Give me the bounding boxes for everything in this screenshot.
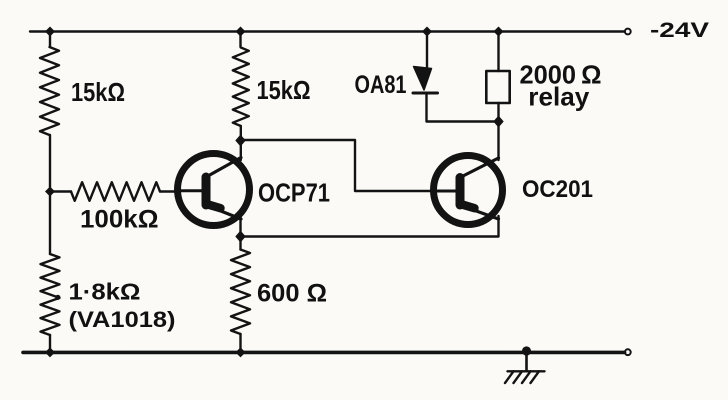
wire 100k right lead to OCP71 base	[160, 190, 180, 192]
diode OA81 cathode bar	[413, 92, 438, 95]
wire 15k second branch to collector node	[240, 126, 242, 160]
OCP71 envelope circle	[178, 154, 250, 226]
OCP71 emitter line	[207, 206, 241, 220]
OC201 emitter line	[461, 206, 499, 220]
relay branch wire top	[497, 32, 499, 72]
wire left branch bottom	[49, 335, 51, 352]
node junction dot top rail / 15k second branch	[236, 27, 246, 37]
OC201 base bar	[456, 178, 465, 206]
wire OA81 bottom	[427, 93, 499, 122]
svg-text:relay: relay	[528, 82, 590, 112]
wire relay bottom	[497, 103, 499, 160]
wire left branch top	[49, 32, 51, 48]
wire bottom rail	[23, 351, 625, 355]
OC201 collector line	[461, 158, 499, 177]
wire left branch middle	[49, 135, 51, 254]
wire OA81 branch top	[426, 32, 428, 68]
blob artifact on 1.8k resistor	[55, 295, 60, 300]
node junction dot bottom rail / left branch	[45, 347, 55, 357]
OC201 emitter arrow	[462, 205, 475, 209]
svg-text:-24V: -24V	[650, 19, 709, 42]
wire top supply rail	[30, 30, 625, 32]
wire 15k second branch top	[239, 32, 241, 48]
svg-text:OC201: OC201	[522, 176, 593, 203]
svg-text:100kΩ: 100kΩ	[80, 206, 159, 234]
svg-text:15kΩ: 15kΩ	[257, 75, 311, 105]
svg-text:600 Ω: 600 Ω	[257, 280, 327, 308]
wire OCP71 emitter down	[239, 216, 241, 237]
OCP71 base lead	[180, 189, 203, 192]
node junction dot collector of OCP71	[235, 135, 245, 147]
resistor 100k	[71, 182, 160, 201]
node junction dot bottom rail / ground	[522, 346, 531, 355]
terminal -24V (open circle)	[625, 29, 631, 35]
transistor OC201	[434, 156, 503, 225]
OCP71 collector line	[207, 158, 241, 177]
wire 100k left lead	[50, 190, 71, 192]
transistor OCP71	[178, 154, 250, 226]
terminal bottom right (open circle)	[625, 349, 631, 355]
ground stub wire	[525, 352, 528, 371]
OC201 base lead	[434, 190, 457, 193]
ground symbol	[505, 371, 545, 383]
node junction dot bottom rail / 600 ohm	[236, 347, 246, 357]
node junction dot top rail / left branch	[45, 27, 55, 37]
svg-text:15kΩ: 15kΩ	[71, 77, 125, 107]
OCP71 base bar	[202, 177, 211, 205]
wire OCP71 emitter to OC201 emitter	[241, 216, 499, 237]
diode OA81 triangle	[414, 67, 432, 91]
OCP71 emitter arrow	[208, 205, 221, 209]
resistor 600 ohm	[231, 250, 250, 335]
resistor 15k (second)	[233, 48, 249, 127]
OC201 envelope circle	[434, 156, 503, 225]
wire 600 ohm to bottom rail	[239, 334, 241, 352]
node junction dot top rail / relay branch	[494, 27, 504, 37]
node junction dot relay/diode/collector	[493, 116, 503, 128]
resistor 1.8k (VA1018)	[41, 254, 60, 335]
relay 2000 ohm coil rectangle	[486, 71, 509, 103]
node junction dot left branch / 100k base wire	[45, 187, 55, 197]
wire emitter node to 600 ohm	[239, 237, 241, 250]
node junction dot OCP71 emitter	[235, 231, 245, 243]
svg-text:1·8kΩ: 1·8kΩ	[69, 279, 141, 305]
node junction dot top rail / OA81 diode branch	[422, 27, 432, 37]
svg-text:(VA1018): (VA1018)	[69, 307, 176, 332]
svg-text:OCP71: OCP71	[258, 178, 330, 208]
resistor 15k (left)	[40, 47, 59, 135]
wire OCP71 collector to OC201 base	[241, 140, 435, 191]
svg-text:OA81: OA81	[355, 71, 407, 99]
